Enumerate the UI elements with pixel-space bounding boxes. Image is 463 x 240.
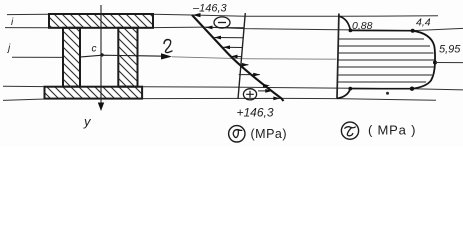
arrow sigma on 86 line (263, 84, 270, 88)
sign plus circled (243, 89, 256, 100)
arrowhead (206, 26, 213, 30)
tau curve bottom flange (337, 89, 350, 99)
svg-text:(MPa): (MPa) (251, 127, 288, 141)
svg-text:+146,3: +146,3 (237, 106, 274, 120)
tau hatch line y67 (338, 66, 434, 68)
node dot 4,4 bottom (410, 87, 414, 91)
axis y centerline (100, 5, 102, 104)
node dot 0,88 top (349, 29, 353, 33)
wire: fiber j guide line (12, 56, 63, 58)
sigma hatch arrow y74.6 (239, 74, 260, 76)
wire: apex leader line (435, 62, 463, 64)
wire: neutral axis faint line (172, 57, 337, 59)
sigma diagram axis (238, 13, 245, 99)
svg-text:j: j (6, 43, 11, 54)
wire: bottom fiber guide line (3, 98, 436, 100)
sigma hatch arrow y56.5 (231, 56, 242, 58)
sigma hatch arrow y37.5 (215, 37, 244, 39)
svg-text:0,88: 0,88 (352, 20, 373, 32)
sigma hatch arrow y90.9 (258, 90, 272, 92)
section: left web (63, 28, 80, 87)
tau web parabola (412, 31, 435, 89)
sigma hatch arrow y64.8 (240, 64, 249, 66)
section: right web (118, 28, 137, 87)
tau jump line top (350, 29, 412, 31)
node c centroid dot (100, 53, 103, 56)
arrow sigma bottom fiber (273, 97, 280, 101)
arrowhead (265, 89, 272, 93)
tau hatch line y60 (339, 59, 435, 61)
arrowhead (214, 36, 221, 40)
svg-text:c: c (92, 44, 97, 55)
svg-text:y: y (83, 114, 92, 129)
svg-text:–146,3: –146,3 (192, 3, 228, 15)
tau hatch line y39 (339, 38, 424, 40)
sigma hatch arrow y47.3 (224, 46, 243, 48)
tau diagram axis (337, 14, 339, 99)
wire: bottom flange top guide line (3, 86, 463, 90)
arrowhead (231, 55, 238, 59)
node dot 4,4 top (411, 29, 415, 33)
arrowhead (223, 45, 230, 49)
arrowhead (253, 73, 260, 77)
svg-text:i: i (11, 17, 14, 28)
wire: fiber i guide line (5, 26, 205, 29)
tau hatch line y46 (339, 45, 430, 47)
label tau circled (341, 122, 358, 139)
node stray dot (386, 92, 389, 95)
arrow sigma top fiber (193, 13, 201, 17)
svg-text:5,95: 5,95 (439, 44, 461, 56)
axis z line (81, 55, 165, 57)
label z (164, 40, 172, 53)
tau hatch line y53 (339, 52, 434, 54)
arrow y axis (98, 103, 104, 112)
section: bottom flange (45, 87, 143, 99)
section: top flange (49, 14, 153, 28)
svg-text:4,4: 4,4 (416, 17, 431, 29)
sigma diagram diagonal (192, 15, 284, 101)
svg-text:( MPa ): ( MPa ) (368, 123, 416, 138)
wire: top fiber guide line (7, 14, 438, 16)
arrowhead (242, 63, 249, 67)
sign minus circled (214, 17, 230, 28)
arrow z axis (161, 53, 172, 59)
tau hatch line y75 (338, 74, 432, 76)
sigma hatch arrow y28 (206, 26, 244, 28)
node dot 0,88 bottom (348, 87, 352, 91)
tau jump line bottom (350, 88, 412, 90)
wire: fiber i guide line right part (205, 27, 463, 31)
node dot 5,95 apex (433, 61, 437, 65)
tau curve top flange (339, 16, 351, 30)
label sigma circled (229, 126, 245, 142)
tau hatch line y82 (338, 81, 426, 83)
